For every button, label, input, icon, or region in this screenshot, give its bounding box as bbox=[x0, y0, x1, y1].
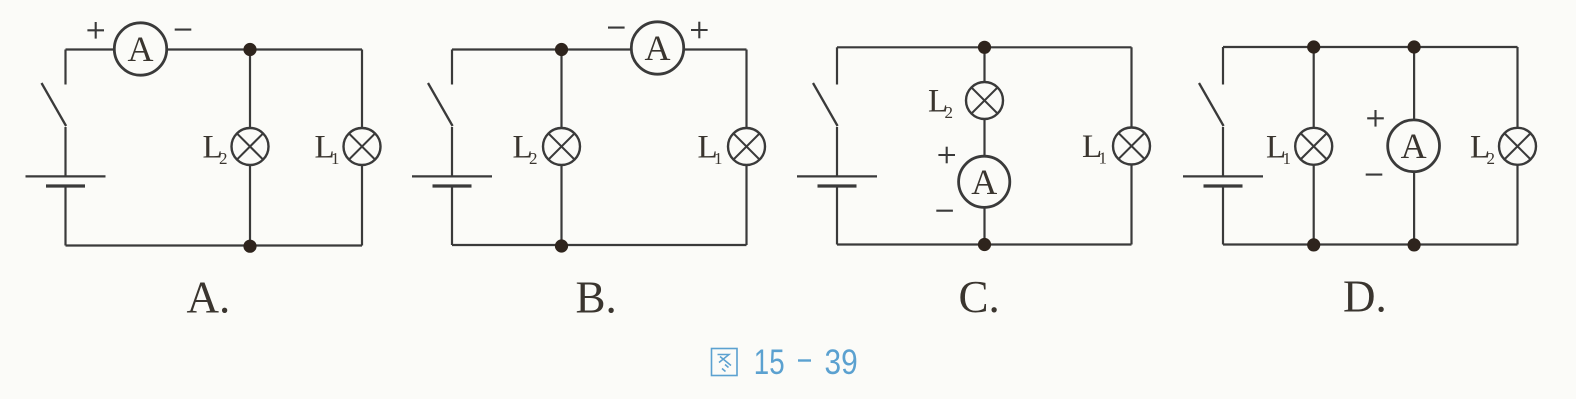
ammeter A (circuit D, branch 2) bbox=[1388, 120, 1440, 172]
wire circuit-A left bottom (battery to bottom rail) bbox=[64, 188, 66, 246]
polarity + (circuit A ammeter left) bbox=[87, 29, 104, 31]
polarity - (circuit B ammeter left) bbox=[608, 27, 625, 29]
switch S (circuit-A, open blade) bbox=[42, 83, 67, 126]
svg-text:A.: A. bbox=[187, 273, 231, 323]
ammeter A (circuit A, on top rail) bbox=[114, 23, 166, 75]
wire circuit-B top rail bbox=[452, 48, 747, 50]
wire circuit-C bottom rail bbox=[837, 243, 1132, 245]
wire circuit-B left top stub bbox=[451, 50, 453, 85]
svg-text:A: A bbox=[971, 162, 997, 202]
battery cell (circuit-A) long positive plate bbox=[26, 175, 106, 177]
ammeter A (circuit B, on top rail) bbox=[631, 22, 683, 74]
polarity + (circuit B ammeter right) bbox=[691, 29, 708, 31]
svg-text:1: 1 bbox=[1283, 149, 1292, 168]
svg-text:A: A bbox=[128, 29, 154, 69]
wire circuit-B bottom rail bbox=[452, 244, 747, 246]
svg-text:1: 1 bbox=[1099, 149, 1108, 168]
node: circuit A top junction bbox=[243, 43, 256, 56]
svg-text:15: 15 bbox=[754, 341, 785, 381]
node: circuit D top junction 2 bbox=[1408, 40, 1421, 53]
svg-text:D.: D. bbox=[1343, 272, 1387, 322]
node: circuit B bottom junction bbox=[555, 239, 568, 252]
svg-text:2: 2 bbox=[219, 149, 228, 168]
svg-text:A: A bbox=[1401, 126, 1427, 166]
node: circuit C top junction bbox=[978, 41, 991, 54]
polarity - (circuit A ammeter right) bbox=[175, 29, 192, 31]
switch S (circuit-C, open blade) bbox=[813, 83, 838, 126]
wire circuit-A left middle (switch to battery) bbox=[64, 127, 66, 176]
lamp L1 (circuit B right branch) bbox=[728, 128, 765, 165]
svg-text:B.: B. bbox=[576, 273, 617, 323]
node: circuit D top junction 1 bbox=[1307, 40, 1320, 53]
polarity + (circuit C ammeter upper-left) bbox=[938, 154, 955, 156]
wire circuit-D branch 2 (ammeter) bbox=[1413, 47, 1415, 245]
wire circuit-D right branch bbox=[1516, 47, 1518, 245]
battery cell (circuit-C) short negative plate bbox=[818, 184, 857, 187]
lamp L1 (circuit C right branch) bbox=[1113, 128, 1150, 165]
battery cell (circuit-D) long positive plate bbox=[1183, 175, 1263, 177]
polarity - (circuit C ammeter lower-left) bbox=[936, 210, 953, 212]
svg-text:2: 2 bbox=[945, 103, 954, 122]
node: circuit D bottom junction 2 bbox=[1408, 238, 1421, 251]
node: circuit D bottom junction 1 bbox=[1307, 238, 1320, 251]
wire circuit-B left bottom (battery to bottom rail) bbox=[451, 188, 453, 246]
switch S (circuit-B, open blade) bbox=[428, 83, 453, 126]
wire circuit-D left bottom (battery to bottom rail) bbox=[1222, 188, 1224, 245]
wire circuit-B right branch bbox=[745, 50, 747, 246]
svg-text:2: 2 bbox=[1487, 149, 1496, 168]
wire circuit-C middle branch bbox=[983, 47, 985, 244]
lamp L2 (circuit C middle branch) bbox=[966, 82, 1003, 119]
polarity - (circuit D ammeter lower-left) bbox=[1366, 174, 1383, 176]
svg-text:2: 2 bbox=[529, 149, 538, 168]
lamp L2 (circuit A middle branch) bbox=[232, 128, 269, 165]
wire circuit-B left middle (switch to battery) bbox=[451, 127, 453, 176]
battery cell (circuit-A) short negative plate bbox=[46, 184, 85, 187]
polarity + (circuit D ammeter upper-left) bbox=[1367, 117, 1384, 119]
wire circuit-C left bottom (battery to bottom rail) bbox=[836, 188, 838, 245]
battery cell (circuit-B) short negative plate bbox=[433, 184, 472, 187]
wire circuit-A left top stub bbox=[64, 50, 66, 85]
svg-text:1: 1 bbox=[714, 149, 723, 168]
wire circuit-C right branch bbox=[1130, 47, 1132, 244]
battery cell (circuit-B) long positive plate bbox=[412, 175, 492, 177]
wire circuit-C left middle (switch to battery) bbox=[836, 127, 838, 176]
wire circuit-D top rail bbox=[1223, 46, 1518, 48]
ammeter A (circuit C, middle branch) bbox=[959, 156, 1010, 207]
wire circuit-D branch 1 (lamp L1) bbox=[1313, 47, 1315, 245]
battery cell (circuit-C) long positive plate bbox=[797, 175, 877, 177]
wire circuit-A bottom rail bbox=[66, 244, 363, 246]
wire circuit-D left middle (switch to battery) bbox=[1222, 127, 1224, 176]
svg-text:1: 1 bbox=[331, 149, 340, 168]
caption: figure character 图 (drawn) bbox=[712, 349, 738, 376]
wire circuit-D bottom rail bbox=[1223, 243, 1518, 245]
switch S (circuit-D, open blade) bbox=[1199, 83, 1224, 126]
caption: figure number 15 - 39 bbox=[754, 341, 785, 381]
wire circuit-B middle branch bbox=[560, 50, 562, 246]
wire circuit-C left top stub bbox=[836, 47, 838, 84]
svg-text:39: 39 bbox=[825, 341, 858, 381]
lamp L2 (circuit D right branch) bbox=[1499, 128, 1536, 165]
node: circuit B top junction bbox=[555, 43, 568, 56]
wire circuit-A top rail bbox=[66, 48, 363, 50]
lamp L2 (circuit B middle branch) bbox=[543, 128, 580, 165]
wire circuit-D left top stub bbox=[1222, 47, 1224, 85]
svg-text:C.: C. bbox=[959, 272, 1000, 322]
wire circuit-C top rail bbox=[837, 46, 1132, 48]
node: circuit A bottom junction bbox=[243, 240, 256, 253]
lamp L1 (circuit D branch 1) bbox=[1295, 128, 1332, 165]
svg-text:A: A bbox=[645, 28, 671, 68]
wire circuit-A middle branch bbox=[249, 50, 251, 246]
wire circuit-A right branch bbox=[361, 50, 363, 246]
node: circuit C bottom junction bbox=[978, 238, 991, 251]
lamp L1 (circuit A right branch) bbox=[344, 128, 381, 165]
battery cell (circuit-D) short negative plate bbox=[1204, 184, 1243, 187]
